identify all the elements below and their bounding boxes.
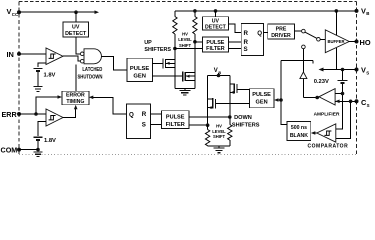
transistor M2 up level shifter bbox=[152, 71, 195, 81]
svg-text:SHIFT: SHIFT bbox=[213, 134, 226, 139]
svg-text:LEVEL: LEVEL bbox=[212, 129, 226, 134]
svg-text:S: S bbox=[367, 103, 370, 108]
label HV level shift (top) bbox=[178, 32, 192, 48]
amplifier (current limit) bbox=[314, 89, 340, 118]
label down shifters bbox=[232, 115, 260, 129]
wire VB to buffer top bbox=[335, 11, 337, 35]
wire M4 drain to node 4 bbox=[206, 123, 210, 127]
wire M3 source to VB rail bbox=[229, 76, 231, 118]
svg-text:0.23V: 0.23V bbox=[314, 79, 329, 85]
input comparator (Schmitt) bbox=[46, 48, 63, 65]
svg-text:SHIFT: SHIFT bbox=[179, 43, 192, 48]
battery 1.8V (error threshold) bbox=[34, 137, 57, 144]
wire gate output to pulse gen bbox=[101, 56, 126, 70]
wire node 2 to pulse filter bbox=[195, 41, 203, 43]
500 ns blank block bbox=[287, 121, 311, 140]
svg-text:AMPLIFIER: AMPLIFIER bbox=[314, 111, 340, 117]
svg-text:UP: UP bbox=[144, 40, 152, 46]
wire pulse filter to fault latch R bbox=[151, 113, 162, 115]
svg-text:V: V bbox=[7, 7, 12, 16]
wire M1 drain to node 1 bbox=[173, 47, 177, 60]
svg-text:S: S bbox=[366, 70, 369, 75]
svg-text:BLANK: BLANK bbox=[290, 133, 308, 139]
svg-text:BUFFER: BUFFER bbox=[328, 39, 345, 44]
error comparator bbox=[46, 109, 63, 126]
svg-text:FILTER: FILTER bbox=[206, 46, 225, 52]
svg-text:LEVEL: LEVEL bbox=[178, 37, 192, 42]
svg-text:DRIVER: DRIVER bbox=[271, 33, 291, 39]
pin VCC bbox=[7, 7, 22, 17]
svg-text:PRE: PRE bbox=[276, 27, 287, 33]
svg-text:IN: IN bbox=[7, 50, 14, 59]
wire VB rail bbox=[175, 9, 357, 13]
svg-text:PULSE: PULSE bbox=[252, 92, 271, 98]
wire battery to ground bbox=[37, 72, 39, 86]
output buffer to HO bbox=[325, 30, 349, 53]
label up shifters bbox=[144, 40, 171, 53]
svg-text:DETECT: DETECT bbox=[65, 31, 87, 37]
pulse filter block (high side) bbox=[203, 37, 229, 52]
wire pulse filter to latch S bbox=[228, 48, 241, 50]
resistor R4 level shift bbox=[228, 117, 232, 146]
IC boundary right dashed bbox=[356, 2, 358, 155]
wire fault latch Q to error timing bbox=[89, 96, 127, 115]
svg-text:B: B bbox=[366, 11, 369, 16]
wire CS to amplifier input bbox=[335, 100, 356, 104]
svg-text:PULSE: PULSE bbox=[130, 66, 149, 72]
svg-text:HO: HO bbox=[360, 38, 371, 47]
error timing block bbox=[62, 91, 89, 105]
pin VB bbox=[355, 6, 370, 16]
wire buffer bottom to VS bbox=[335, 48, 337, 70]
wire error comparator minus to 1.8V reference bbox=[38, 122, 46, 136]
pin COM bbox=[1, 146, 22, 155]
wire battery to COM bbox=[36, 141, 40, 152]
wire comparator output to blank bbox=[311, 131, 317, 135]
UV detect block (VB side) bbox=[203, 11, 229, 31]
svg-text:R: R bbox=[244, 30, 249, 37]
wire input comparator output to gate bbox=[63, 56, 80, 61]
IC boundary left dashed bbox=[18, 2, 20, 155]
wire COM bbox=[19, 149, 38, 151]
wire down shifter node to pulse filter (lower) bbox=[189, 124, 208, 126]
IC boundary top dashed bbox=[19, 1, 357, 3]
wire VS rail with arrow bbox=[319, 68, 357, 72]
wire M2 drain to node 2 bbox=[193, 40, 197, 72]
wire IN to input comparator bbox=[19, 53, 46, 55]
switch SW1 lower contact bbox=[302, 45, 306, 49]
svg-text:S: S bbox=[142, 122, 146, 129]
resistor R2 pull-up bbox=[193, 11, 197, 42]
wire latch Q to pre driver bbox=[264, 32, 268, 34]
svg-text:SHIFTERS: SHIFTERS bbox=[144, 47, 171, 53]
svg-text:SHIFTERS: SHIFTERS bbox=[232, 123, 260, 129]
wire CS to comparator input bbox=[336, 101, 351, 138]
svg-text:SHUTDOWN: SHUTDOWN bbox=[77, 74, 102, 81]
wire shifter source rail bbox=[175, 89, 195, 91]
svg-text:PULSE: PULSE bbox=[166, 114, 185, 120]
wire switch contact to amplifier output net bbox=[279, 49, 313, 125]
pin VS bbox=[355, 66, 370, 76]
svg-text:HV: HV bbox=[216, 124, 222, 129]
svg-text:1.8V: 1.8V bbox=[44, 138, 56, 144]
svg-text:LATCHED: LATCHED bbox=[82, 66, 102, 73]
svg-text:FILTER: FILTER bbox=[166, 122, 185, 128]
svg-text:ERROR: ERROR bbox=[66, 93, 85, 99]
svg-text:V: V bbox=[214, 68, 218, 74]
wire M1 source to ground bbox=[174, 68, 176, 89]
svg-text:TIMING: TIMING bbox=[66, 99, 84, 105]
ground (COM) bbox=[34, 152, 43, 157]
wire M2 source to ground bbox=[194, 80, 196, 88]
svg-text:Q: Q bbox=[129, 112, 134, 119]
pin CS bbox=[355, 98, 370, 108]
fault latch (low side) bbox=[127, 104, 151, 138]
IC boundary bottom dotted bbox=[19, 154, 357, 156]
wire down shifter node to pulse filter (upper) bbox=[189, 116, 230, 118]
ground (down shifters) bbox=[214, 148, 225, 153]
svg-text:UV: UV bbox=[72, 25, 80, 31]
wire shifter resistor rail bbox=[208, 146, 230, 148]
svg-text:HV: HV bbox=[182, 32, 188, 37]
svg-text:1.8V: 1.8V bbox=[44, 73, 56, 79]
resistor R3 level shift bbox=[205, 125, 209, 146]
gate drive latch (high side) bbox=[241, 24, 263, 56]
battery 1.8V (input threshold) bbox=[34, 69, 56, 79]
pin ERR bbox=[2, 110, 22, 119]
wire pulse filter to latch R2 bbox=[228, 41, 241, 43]
wire ERR branch to error timing input bbox=[36, 95, 62, 114]
wire to pulse gen input arrow bbox=[274, 98, 281, 102]
svg-text:CC: CC bbox=[12, 12, 19, 17]
wire ERR to error comparator bbox=[19, 112, 46, 116]
svg-text:COM: COM bbox=[1, 146, 18, 155]
wire pulse filter to fault latch S bbox=[151, 123, 162, 125]
wire comparator minus to 1.8V reference bbox=[38, 63, 46, 67]
transistor M4 down level shifter bbox=[208, 98, 250, 109]
wire VCC feed with arrow bbox=[19, 10, 99, 14]
battery 0.23V current sense reference bbox=[314, 70, 348, 86]
transistor M1 up level shifter bbox=[152, 59, 175, 69]
wire buffer to HO bbox=[349, 41, 356, 43]
ground (input reference) bbox=[34, 87, 43, 92]
svg-text:GEN: GEN bbox=[256, 100, 268, 106]
pulse gen block (high side) bbox=[249, 89, 274, 108]
wire reference to amplifier and comparator inputs bbox=[335, 84, 344, 129]
pin HO bbox=[355, 38, 371, 47]
resistor R1 pull-up bbox=[173, 11, 177, 49]
wire UV detect / error timing to shutdown gate input bbox=[76, 37, 80, 91]
buffer (amp output to switch) bbox=[300, 61, 319, 100]
label HV level shift (bottom) bbox=[212, 124, 226, 140]
pin IN bbox=[7, 50, 22, 59]
comparator (over current) bbox=[308, 124, 349, 149]
wire UV detect to latch R bbox=[228, 24, 241, 32]
switch SW1 pre driver to buffer bbox=[295, 29, 326, 41]
svg-text:ERR: ERR bbox=[2, 110, 18, 119]
wire M4 source to VB rail bbox=[207, 76, 209, 126]
svg-text:DOWN: DOWN bbox=[234, 115, 252, 121]
latched shutdown gate U1 bbox=[77, 49, 102, 81]
svg-text:PULSE: PULSE bbox=[206, 40, 224, 46]
wire node 1 to pulse filter bbox=[175, 48, 203, 50]
pulse gen block (low side) bbox=[127, 58, 153, 81]
svg-text:500 ns: 500 ns bbox=[291, 125, 307, 131]
transistor M3 down level shifter bbox=[230, 83, 250, 94]
node VB (down shifter supply) bbox=[208, 68, 230, 77]
svg-text:S: S bbox=[244, 46, 248, 53]
svg-text:Q: Q bbox=[257, 30, 262, 37]
pre driver block bbox=[268, 24, 295, 39]
svg-text:GEN: GEN bbox=[133, 74, 146, 80]
UV detect block (VCC side) bbox=[63, 22, 89, 37]
pulse filter block (low side) bbox=[161, 111, 189, 129]
wire error comparator output to error timing bbox=[63, 105, 78, 118]
svg-text:COMPARATOR: COMPARATOR bbox=[308, 143, 349, 149]
ground (up shifters) bbox=[179, 90, 190, 95]
wire VCC to UV detect bbox=[75, 12, 77, 22]
svg-text:R: R bbox=[142, 111, 147, 118]
wire M3 drain to node 3 bbox=[228, 115, 232, 119]
svg-text:DETECT: DETECT bbox=[205, 25, 227, 31]
